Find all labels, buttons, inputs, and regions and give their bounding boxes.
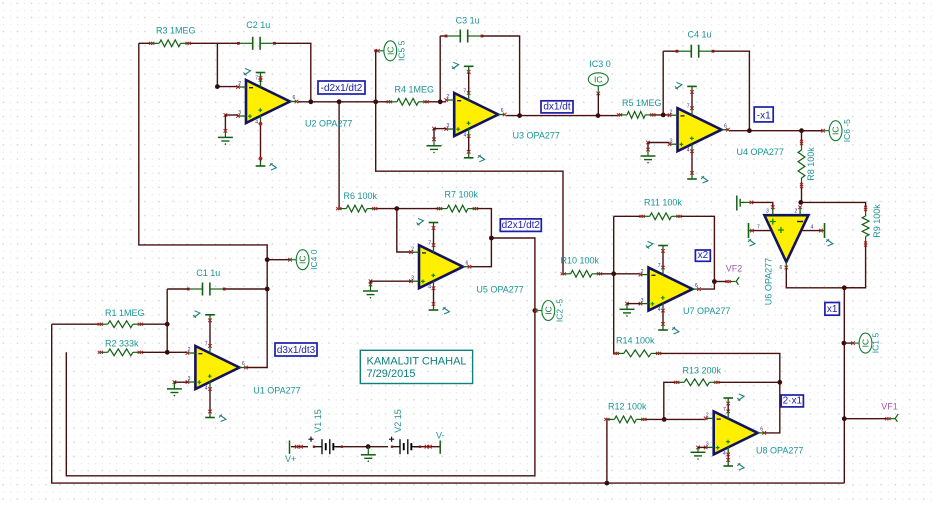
net label d2x1/dt2 xyxy=(500,219,541,232)
svg-text:IC6 -5: IC6 -5 xyxy=(842,119,852,142)
svg-text:7: 7 xyxy=(464,89,467,95)
port VF2 xyxy=(726,277,740,285)
wire xyxy=(600,273,641,275)
wire xyxy=(751,202,772,210)
wire xyxy=(729,130,822,132)
svg-text:7: 7 xyxy=(687,104,690,110)
svg-text:3: 3 xyxy=(238,110,241,116)
wire xyxy=(336,446,388,448)
junction xyxy=(611,271,616,276)
svg-text:x1: x1 xyxy=(827,304,838,315)
label V- xyxy=(436,431,445,441)
resistor R14 xyxy=(614,350,662,357)
label C4 1u xyxy=(688,30,712,40)
net label -x1 xyxy=(754,107,773,122)
junction xyxy=(438,99,443,104)
wire xyxy=(376,102,563,274)
svg-text:3: 3 xyxy=(706,442,709,448)
svg-text:4: 4 xyxy=(464,133,467,139)
svg-text:4: 4 xyxy=(811,225,814,231)
svg-text:R2 333k: R2 333k xyxy=(105,339,139,349)
svg-text:2: 2 xyxy=(238,81,241,87)
wire xyxy=(717,381,780,383)
wire xyxy=(506,115,619,117)
wire xyxy=(439,36,441,102)
op-amp U4 xyxy=(668,104,730,154)
label V1 15 xyxy=(313,409,323,433)
svg-text:VF1: VF1 xyxy=(881,402,898,412)
svg-text:IC: IC xyxy=(385,47,395,56)
svg-text:R8 100k: R8 100k xyxy=(806,147,816,181)
label C1 1u xyxy=(196,268,220,278)
label IC3 0 xyxy=(589,59,611,69)
capacitor C4 xyxy=(676,45,715,58)
resistor R6 xyxy=(336,205,377,212)
junction xyxy=(605,481,610,486)
label R12 100k xyxy=(608,401,647,411)
wire xyxy=(844,418,888,420)
junction xyxy=(489,236,494,241)
svg-text:4: 4 xyxy=(205,386,208,392)
svg-text:C4 1u: C4 1u xyxy=(688,30,712,40)
svg-text:2·x1: 2·x1 xyxy=(783,396,803,407)
ground U2 xyxy=(218,113,238,145)
wire xyxy=(166,289,168,352)
label V+ xyxy=(285,454,296,464)
junction xyxy=(798,200,803,205)
svg-text:3: 3 xyxy=(766,209,769,215)
svg-text:6: 6 xyxy=(695,283,698,289)
power V- U7 xyxy=(658,303,679,334)
svg-text:U8 OPA277: U8 OPA277 xyxy=(756,446,803,456)
junction xyxy=(165,350,170,355)
label VF1 xyxy=(881,402,898,412)
resistor R2 xyxy=(98,349,143,356)
resistor R1 xyxy=(98,321,143,328)
svg-text:U2 OPA277: U2 OPA277 xyxy=(305,118,352,128)
svg-text:R3 1MEG: R3 1MEG xyxy=(156,26,196,36)
svg-text:R13 200k: R13 200k xyxy=(683,366,722,376)
svg-text:V2 15: V2 15 xyxy=(393,409,403,433)
wire xyxy=(801,202,866,208)
svg-text:V+: V+ xyxy=(285,454,296,464)
label U7 OPA277 xyxy=(683,306,730,316)
svg-text:6: 6 xyxy=(760,427,763,433)
svg-text:U1 OPA277: U1 OPA277 xyxy=(253,385,300,395)
resistor R12 xyxy=(604,416,646,423)
resistor R9 xyxy=(862,206,869,247)
junction xyxy=(662,417,667,422)
svg-text:U7 OPA277: U7 OPA277 xyxy=(683,306,730,316)
wire xyxy=(801,131,803,203)
net label d3x1/dt3 xyxy=(275,343,317,356)
net label dx1/dt xyxy=(541,101,573,113)
label U5 OPA277 xyxy=(476,284,523,294)
junction xyxy=(517,113,522,118)
title block xyxy=(360,350,472,383)
junction xyxy=(842,285,847,290)
power V- U3 xyxy=(464,129,485,162)
svg-text:IC: IC xyxy=(831,126,841,135)
svg-text:3: 3 xyxy=(670,138,673,144)
node -d2x1/dt2 xyxy=(215,84,220,89)
svg-text:2: 2 xyxy=(670,109,673,115)
svg-text:7: 7 xyxy=(428,241,431,247)
svg-text:IC: IC xyxy=(543,306,553,315)
resistor R7 xyxy=(437,205,478,212)
svg-text:R6 100k: R6 100k xyxy=(344,191,378,201)
svg-text:R14 100k: R14 100k xyxy=(616,335,655,345)
junction xyxy=(265,257,270,262)
ground U4 xyxy=(641,141,670,164)
power V+ U4 xyxy=(675,82,697,115)
svg-text:7: 7 xyxy=(255,76,258,82)
port VF1 xyxy=(885,414,898,422)
net label x2 xyxy=(695,250,710,261)
ground U6 xyxy=(737,196,753,211)
label R10 100k xyxy=(561,255,600,265)
junction xyxy=(533,308,538,313)
svg-text:6: 6 xyxy=(780,265,783,271)
wire xyxy=(786,266,865,288)
svg-text:d2x1/dt2: d2x1/dt2 xyxy=(502,220,541,231)
svg-text:2: 2 xyxy=(706,413,709,419)
wire xyxy=(644,418,706,420)
svg-text:C3 1u: C3 1u xyxy=(456,16,480,26)
wire xyxy=(139,43,311,102)
svg-text:3: 3 xyxy=(446,123,449,129)
resistor R11 xyxy=(640,213,682,220)
junction xyxy=(337,99,342,104)
label U2 OPA277 xyxy=(305,118,352,128)
wire xyxy=(167,288,267,290)
ground U1 xyxy=(167,380,188,396)
svg-text:7: 7 xyxy=(757,225,760,231)
power V+ U7 xyxy=(646,242,668,276)
svg-text:7: 7 xyxy=(723,407,726,413)
wire xyxy=(440,36,519,116)
svg-text:6: 6 xyxy=(724,123,727,129)
junction xyxy=(308,99,313,104)
wire xyxy=(374,49,377,101)
wire xyxy=(397,209,411,252)
capacitor C2 xyxy=(237,37,276,50)
junction xyxy=(366,444,371,449)
svg-text:IC3 0: IC3 0 xyxy=(589,59,611,69)
wire xyxy=(66,238,535,476)
junction xyxy=(165,322,170,327)
wire xyxy=(475,209,491,238)
svg-text:R12 100k: R12 100k xyxy=(608,401,647,411)
svg-text:6: 6 xyxy=(501,108,504,114)
svg-text:VF2: VF2 xyxy=(726,264,743,274)
svg-text:3: 3 xyxy=(641,298,644,304)
wire xyxy=(140,323,167,325)
port V- xyxy=(439,441,441,454)
svg-text:IC5 5: IC5 5 xyxy=(397,40,407,61)
label U8 OPA277 xyxy=(756,446,803,456)
resistor R13 xyxy=(674,379,719,386)
resistor R8 xyxy=(798,140,805,188)
svg-text:3: 3 xyxy=(411,275,414,281)
junction xyxy=(799,128,804,133)
capacitor C3 xyxy=(445,30,484,43)
IC flag IC6 xyxy=(802,119,853,142)
label R1 1MEG xyxy=(105,308,145,318)
wire xyxy=(614,215,643,217)
ground U5 xyxy=(363,279,411,298)
svg-text:U6 OPA277: U6 OPA277 xyxy=(764,258,774,305)
svg-text:dx1/dt: dx1/dt xyxy=(543,102,570,113)
label VF2 xyxy=(726,264,743,274)
svg-text:3: 3 xyxy=(188,376,191,382)
svg-text:x2: x2 xyxy=(698,250,709,261)
svg-text:4: 4 xyxy=(255,120,258,126)
op-amp U3 xyxy=(444,89,506,139)
net label 2*x1 xyxy=(781,395,803,407)
svg-text:2: 2 xyxy=(411,246,414,252)
junction xyxy=(777,380,782,385)
ground U7 xyxy=(620,302,641,317)
svg-text:-d2x1/dt2: -d2x1/dt2 xyxy=(321,83,363,94)
label U1 OPA277 xyxy=(253,385,300,395)
wire xyxy=(663,51,749,131)
svg-text:2: 2 xyxy=(795,209,798,215)
resistor R3 xyxy=(149,40,191,47)
svg-text:V1 15: V1 15 xyxy=(313,409,323,433)
wire xyxy=(659,353,780,433)
label R9 100k xyxy=(872,204,882,238)
battery V2 xyxy=(389,437,421,455)
svg-text:d3x1/dt3: d3x1/dt3 xyxy=(277,345,316,356)
net label -d2x1/dt2 xyxy=(318,81,365,94)
junction xyxy=(712,279,717,284)
junction xyxy=(265,287,270,292)
wire xyxy=(606,419,608,483)
IC flag IC2 xyxy=(534,299,565,322)
wire xyxy=(291,445,308,449)
svg-text:4: 4 xyxy=(723,451,726,457)
resistor R5 xyxy=(617,112,656,119)
svg-text:R4 1MEG: R4 1MEG xyxy=(395,85,435,95)
svg-text:C1 1u: C1 1u xyxy=(196,268,220,278)
wire xyxy=(653,114,670,116)
label U4 OPA277 xyxy=(737,147,784,157)
power V+ U8 xyxy=(723,394,744,419)
net label x1 xyxy=(825,303,840,316)
label R2 333k xyxy=(105,339,139,349)
wire xyxy=(140,351,187,353)
battery V1 xyxy=(308,437,343,455)
wire xyxy=(844,244,865,288)
power V+ U5 xyxy=(417,219,439,253)
svg-text:2: 2 xyxy=(641,269,644,275)
svg-text:IC2 -5: IC2 -5 xyxy=(555,299,565,322)
svg-text:V-: V- xyxy=(436,431,445,441)
label C3 1u xyxy=(456,16,480,26)
wire xyxy=(52,324,845,483)
ground battery xyxy=(361,447,376,462)
wire xyxy=(614,216,617,353)
port V+ xyxy=(289,441,291,454)
svg-text:2: 2 xyxy=(446,94,449,100)
svg-text:R5 1MEG: R5 1MEG xyxy=(622,98,662,108)
wire xyxy=(597,86,601,116)
svg-text:4: 4 xyxy=(428,285,431,291)
label R8 100k xyxy=(806,147,816,181)
label R6 100k xyxy=(344,191,378,201)
wire xyxy=(679,216,714,281)
svg-text:6: 6 xyxy=(293,95,296,101)
wire xyxy=(338,102,340,209)
op-amp U1 xyxy=(186,342,248,392)
label C2 1u xyxy=(246,20,270,30)
svg-text:7: 7 xyxy=(658,263,661,269)
op-amp U6 xyxy=(748,205,833,271)
wire xyxy=(217,43,238,86)
op-amp U8 xyxy=(704,407,766,457)
svg-text:-x1: -x1 xyxy=(757,111,771,122)
wire xyxy=(139,43,267,367)
svg-text:6: 6 xyxy=(466,260,469,266)
svg-text:IC: IC xyxy=(594,75,603,85)
wire xyxy=(662,51,664,115)
svg-text:KAMALJIT CHAHAL: KAMALJIT CHAHAL xyxy=(367,356,467,368)
label R7 100k xyxy=(445,189,479,199)
svg-text:R1 1MEG: R1 1MEG xyxy=(105,308,145,318)
wire xyxy=(843,288,845,483)
label R5 1MEG xyxy=(622,98,662,108)
svg-text:R11 100k: R11 100k xyxy=(644,197,682,207)
svg-text:R10 100k: R10 100k xyxy=(561,255,600,265)
IC flag IC5 xyxy=(376,40,407,61)
svg-text:R9 100k: R9 100k xyxy=(872,204,882,238)
junction xyxy=(747,128,752,133)
svg-text:R7 100k: R7 100k xyxy=(445,189,479,199)
label R11 100k xyxy=(644,197,682,207)
svg-text:U3 OPA277: U3 OPA277 xyxy=(513,131,560,141)
svg-text:4: 4 xyxy=(687,148,690,154)
wire xyxy=(700,282,714,290)
label R13 200k xyxy=(683,366,722,376)
wire xyxy=(375,208,440,210)
power V- U8 xyxy=(723,447,744,470)
power V- U4 xyxy=(687,144,708,183)
IC flag IC3 xyxy=(588,73,608,86)
op-amp U7 xyxy=(639,263,701,313)
svg-text:IC4 0: IC4 0 xyxy=(309,249,319,270)
op-amp U2 xyxy=(236,76,298,126)
junction xyxy=(373,99,378,104)
svg-text:7: 7 xyxy=(205,342,208,348)
power V+ U1 xyxy=(193,311,215,354)
wire xyxy=(52,323,101,325)
label V2 15 xyxy=(393,409,403,433)
IC flag IC1 xyxy=(844,333,881,354)
label R4 1MEG xyxy=(395,85,435,95)
junction xyxy=(394,206,399,211)
resistor R4 xyxy=(387,98,429,105)
wire xyxy=(298,101,390,103)
wire xyxy=(414,445,440,449)
ground U8 xyxy=(691,446,706,460)
svg-text:6: 6 xyxy=(242,361,245,367)
label R14 100k xyxy=(616,335,655,345)
op-amp U5 xyxy=(409,241,471,291)
svg-text:7/29/2015: 7/29/2015 xyxy=(367,368,416,380)
power V+ U3 xyxy=(452,62,474,100)
label U6 OPA277 xyxy=(764,258,774,305)
junction xyxy=(842,341,847,346)
svg-text:2: 2 xyxy=(188,347,191,353)
power V- U5 xyxy=(429,281,450,314)
label U3 OPA277 xyxy=(513,131,560,141)
svg-text:IC: IC xyxy=(861,339,871,348)
svg-text:IC: IC xyxy=(298,255,308,264)
power V- U2 xyxy=(256,116,277,171)
power V- U1 xyxy=(205,382,226,422)
capacitor C1 xyxy=(187,283,226,296)
wire xyxy=(426,101,446,103)
junction xyxy=(596,113,601,118)
svg-text:4: 4 xyxy=(658,307,661,313)
svg-text:IC1 5: IC1 5 xyxy=(871,333,881,354)
junction xyxy=(842,416,847,421)
resistor R10 xyxy=(561,270,603,277)
svg-text:U5 OPA277: U5 OPA277 xyxy=(476,284,523,294)
svg-text:C2 1u: C2 1u xyxy=(246,20,270,30)
wire xyxy=(714,281,728,283)
junction xyxy=(661,113,666,118)
label R3 1MEG xyxy=(156,26,196,36)
ground U3 xyxy=(427,127,447,154)
svg-text:U4 OPA277: U4 OPA277 xyxy=(737,147,784,157)
wire xyxy=(664,382,677,419)
power V+ U2 xyxy=(244,69,266,88)
IC flag IC4 xyxy=(267,249,319,270)
